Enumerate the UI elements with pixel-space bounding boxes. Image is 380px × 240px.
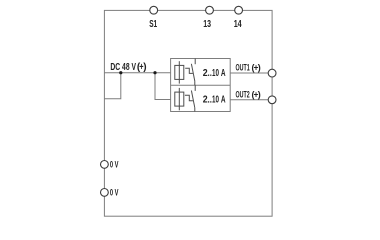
svg-text:14: 14 — [234, 19, 242, 30]
fuse F2 channel 2 — [175, 88, 184, 110]
svg-text:210A: 210A — [203, 68, 226, 79]
terminal 0V lower — [101, 189, 109, 197]
label 14 — [234, 19, 242, 30]
svg-text:DC 48 V(+): DC 48 V(+) — [110, 62, 146, 73]
terminal 0V upper — [101, 161, 109, 169]
wire OUT2 — [230, 99, 272, 101]
electronic switch channel 1 — [185, 59, 195, 86]
label OUT2 (+) — [236, 89, 261, 99]
svg-text:210A: 210A — [203, 95, 226, 106]
label DC 48 V (+) — [110, 62, 146, 73]
svg-text:0 V: 0 V — [110, 187, 119, 197]
terminal OUT2 (+) — [268, 96, 276, 104]
wire OUT1 — [230, 72, 272, 74]
label 13 — [203, 19, 211, 30]
device outline box — [104, 10, 272, 216]
terminal S1 — [150, 6, 158, 14]
current rating label 2..10 A channel 2 — [203, 95, 226, 106]
electronic switch channel 2 — [185, 85, 195, 111]
label 0V lower — [110, 187, 119, 197]
terminal 13 — [206, 6, 214, 14]
wire DC 48 V (+) bus — [104, 72, 170, 74]
terminal OUT1 (+) — [268, 69, 276, 77]
label S1 — [149, 19, 157, 30]
svg-text:OUT1(+): OUT1(+) — [236, 63, 261, 73]
terminal 14 — [235, 6, 243, 14]
svg-text:0 V: 0 V — [110, 159, 119, 169]
wire loop to left edge (supply return) — [104, 73, 121, 99]
junction dot node 1 — [119, 71, 122, 74]
svg-text:S1: S1 — [149, 19, 157, 30]
svg-text:13: 13 — [203, 19, 211, 30]
junction dot node 2 — [153, 71, 156, 74]
circuit breaker block U1 — [171, 59, 231, 112]
svg-text:OUT2(+): OUT2(+) — [236, 89, 261, 99]
label OUT1 (+) — [236, 63, 261, 73]
label 0V upper — [110, 159, 119, 169]
fuse F1 channel 1 — [175, 61, 184, 83]
current rating label 2..10 A channel 1 — [203, 68, 226, 79]
wire feed channel 2 — [155, 73, 171, 100]
